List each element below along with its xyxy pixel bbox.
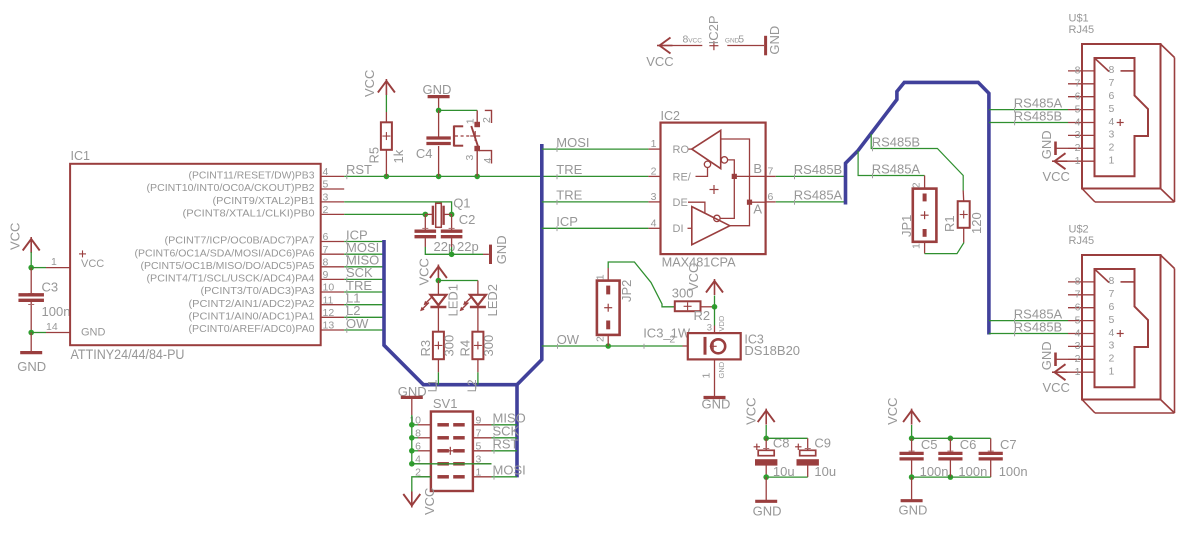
- switch S1 (reset button): [454, 110, 494, 176]
- svg-text:JP2: JP2: [619, 280, 634, 302]
- svg-text:7: 7: [1075, 78, 1081, 90]
- svg-text:5: 5: [1109, 314, 1115, 326]
- wire net OW (bus to JP2/IC3): [542, 325, 691, 349]
- svg-text:RS485B: RS485B: [1014, 319, 1062, 334]
- svg-text:U$2: U$2: [1069, 224, 1089, 236]
- svg-text:300: 300: [441, 335, 456, 357]
- svg-text:120: 120: [969, 212, 984, 234]
- ground GND (C3 / IC1 pin14): [17, 333, 46, 375]
- svg-text:5: 5: [476, 441, 482, 453]
- svg-text:9: 9: [323, 269, 329, 281]
- node junction R2/VDD: [712, 304, 718, 326]
- svg-text:4: 4: [323, 166, 329, 178]
- svg-text:1: 1: [701, 373, 713, 379]
- svg-text:14: 14: [46, 321, 58, 333]
- svg-text:R2: R2: [694, 308, 711, 323]
- jumper JP2: [594, 268, 634, 346]
- capacitor C6 100n: [938, 436, 987, 480]
- svg-text:GND: GND: [702, 397, 731, 412]
- svg-text:2: 2: [651, 165, 657, 177]
- svg-text:1: 1: [476, 467, 482, 479]
- svg-text:2: 2: [1109, 142, 1115, 154]
- wire SV1 pin2 to VCC: [412, 477, 431, 492]
- svg-text:2: 2: [323, 204, 329, 216]
- svg-text:R4: R4: [458, 340, 473, 357]
- svg-text:VCC: VCC: [744, 397, 759, 424]
- node junction C4/switch top: [436, 108, 477, 114]
- svg-text:3: 3: [707, 322, 712, 333]
- svg-text:4: 4: [1075, 327, 1081, 339]
- svg-text:JP1: JP1: [899, 215, 914, 237]
- power VCC (U$1 pin1): [1043, 153, 1070, 184]
- svg-text:RS485A: RS485A: [872, 161, 921, 176]
- svg-text:Q1: Q1: [453, 196, 470, 211]
- svg-text:(PCINT5/OC1B/MISO/DO/ADC5)PA5: (PCINT5/OC1B/MISO/DO/ADC5)PA5: [141, 261, 315, 272]
- svg-text:2: 2: [1109, 353, 1115, 365]
- svg-text:ATTINY24/44/84-PU: ATTINY24/44/84-PU: [71, 347, 185, 362]
- svg-text:(PCINT6/OC1A/SDA/MOSI/ADC6)PA6: (PCINT6/OC1A/SDA/MOSI/ADC6)PA6: [135, 248, 315, 259]
- svg-text:1: 1: [1109, 366, 1115, 378]
- svg-text:GND: GND: [899, 503, 928, 518]
- wire net TRE to IC2 pin3: [542, 188, 649, 205]
- svg-text:GND: GND: [17, 359, 46, 374]
- svg-text:C5: C5: [921, 437, 938, 452]
- resistor R2 300: [672, 286, 715, 324]
- svg-text:300: 300: [481, 335, 496, 357]
- capacitor C7 100n: [979, 437, 1028, 479]
- capacitor C3 100n: [18, 268, 70, 333]
- svg-text:100n: 100n: [999, 464, 1028, 479]
- wire IC1 pin2 (XTAL1) to crystal: [344, 213, 425, 215]
- svg-text:1: 1: [1075, 155, 1081, 167]
- svg-text:VCC: VCC: [8, 223, 23, 250]
- svg-text:C6: C6: [960, 437, 977, 452]
- ground GND (IC3): [702, 397, 731, 412]
- svg-text:5: 5: [1109, 103, 1115, 115]
- svg-text:MOSI: MOSI: [556, 135, 589, 150]
- svg-text:RJ45: RJ45: [1069, 24, 1095, 36]
- resistor R3 300: [418, 332, 456, 393]
- svg-text:GND: GND: [1039, 341, 1054, 370]
- svg-text:8: 8: [1075, 65, 1081, 77]
- bus (main signal bus around LEDs/SV1): [384, 144, 542, 477]
- svg-text:11: 11: [323, 294, 334, 306]
- svg-text:OW: OW: [346, 316, 369, 331]
- svg-text:(PCINT9/XTAL2)PB1: (PCINT9/XTAL2)PB1: [213, 196, 315, 207]
- svg-text:VCC: VCC: [422, 488, 437, 515]
- svg-text:100n: 100n: [42, 304, 71, 319]
- svg-text:C7: C7: [1000, 437, 1017, 452]
- resistor R1 120: [942, 191, 984, 243]
- svg-text:L1: L1: [427, 380, 439, 393]
- svg-text:GND: GND: [717, 361, 726, 378]
- svg-text:VCC: VCC: [885, 397, 900, 424]
- wire net RS485A (bus to U$2 pin5): [989, 306, 1068, 323]
- svg-text:OW: OW: [557, 332, 580, 347]
- svg-text:VCC: VCC: [646, 54, 673, 69]
- svg-text:VCC: VCC: [688, 37, 702, 44]
- resistor R5 1k: [366, 112, 406, 176]
- capacitor C8 10u (polarized): [754, 436, 795, 480]
- ground GND (C4 top): [423, 82, 452, 110]
- svg-text:1: 1: [51, 256, 57, 268]
- svg-text:LED2: LED2: [485, 284, 500, 317]
- svg-text:6: 6: [323, 231, 329, 243]
- power VCC (U$2 pin1): [1043, 364, 1070, 395]
- svg-text:RJ45: RJ45: [1069, 235, 1095, 247]
- power VCC (C3 / IC1 pin1): [8, 223, 40, 268]
- svg-text:VDD: VDD: [717, 315, 726, 331]
- svg-text:1: 1: [911, 243, 923, 249]
- capacitor C2a 22p: [415, 214, 456, 254]
- connector U$1 RJ45: [1068, 13, 1175, 203]
- svg-text:12: 12: [323, 307, 335, 319]
- svg-text:ICP: ICP: [556, 214, 578, 229]
- power VCC (C8/C9): [744, 397, 775, 438]
- svg-text:C3: C3: [42, 280, 59, 295]
- svg-text:(PCINT8/XTAL1/CLKI)PB0: (PCINT8/XTAL1/CLKI)PB0: [183, 209, 315, 220]
- svg-text:DE: DE: [673, 197, 688, 209]
- svg-text:GND: GND: [494, 235, 509, 264]
- svg-text:9: 9: [476, 415, 482, 427]
- svg-text:TRE: TRE: [556, 162, 582, 177]
- svg-text:3: 3: [464, 155, 476, 161]
- svg-text:7: 7: [1109, 288, 1115, 300]
- svg-text:RST: RST: [493, 437, 519, 452]
- svg-text:4: 4: [1075, 116, 1081, 128]
- wire JP2 pin1 to R2: [608, 262, 675, 307]
- svg-text:RO: RO: [673, 144, 690, 156]
- svg-text:7: 7: [768, 165, 774, 177]
- svg-text:B: B: [753, 161, 762, 176]
- svg-text:IC2P: IC2P: [706, 15, 721, 44]
- connector U$2 RJ45: [1068, 224, 1175, 414]
- svg-text:C2: C2: [459, 212, 476, 227]
- svg-text:VCC: VCC: [362, 70, 377, 97]
- svg-text:3: 3: [1109, 129, 1115, 141]
- svg-text:6: 6: [768, 191, 774, 203]
- svg-text:7: 7: [323, 244, 329, 256]
- svg-text:13: 13: [323, 320, 335, 332]
- power VCC (R5): [362, 70, 395, 112]
- svg-text:1k: 1k: [391, 149, 406, 163]
- wire GND rail (C5-C7): [909, 474, 991, 480]
- svg-text:(PCINT2/AIN1/ADC2)PA2: (PCINT2/AIN1/ADC2)PA2: [189, 299, 315, 310]
- svg-text:6: 6: [1109, 301, 1115, 313]
- wire JP1 pin1 to R1 bottom: [925, 243, 964, 254]
- svg-text:1: 1: [1075, 366, 1081, 378]
- svg-text:GND: GND: [423, 82, 452, 97]
- crystal Q1: [423, 196, 471, 228]
- svg-text:2: 2: [594, 336, 606, 342]
- power VCC (IC2P pin8): [646, 34, 702, 70]
- svg-text:8: 8: [1075, 276, 1081, 288]
- svg-text:C9: C9: [814, 436, 831, 451]
- ground GND (SV1): [398, 384, 427, 425]
- svg-text:1: 1: [594, 274, 606, 280]
- svg-text:6: 6: [1075, 302, 1081, 314]
- svg-text:IC2: IC2: [661, 109, 681, 123]
- svg-text:2: 2: [911, 182, 923, 188]
- wire SV1 pin4 to pin3 (crossing): [412, 463, 492, 465]
- svg-text:VCC: VCC: [1043, 169, 1070, 184]
- svg-text:5: 5: [738, 34, 744, 46]
- svg-text:4: 4: [651, 217, 657, 229]
- svg-text:A: A: [753, 202, 762, 217]
- wire VCC node to IC1 pin 1: [28, 265, 46, 271]
- power VCC (C5/C6/C7): [885, 397, 920, 438]
- node junction LED supply: [436, 278, 478, 295]
- wire net RS485A from IC2 pin6 to bus: [776, 188, 846, 205]
- svg-text:8: 8: [1109, 275, 1115, 287]
- svg-text:10u: 10u: [814, 464, 836, 479]
- header SV1 (ISP 2x5): [409, 396, 491, 491]
- svg-text:VCC: VCC: [81, 258, 104, 270]
- ground GND (U$1 pin2): [1039, 130, 1068, 159]
- svg-text:3: 3: [1109, 340, 1115, 352]
- svg-text:(PCINT11/RESET/DW)PB3: (PCINT11/RESET/DW)PB3: [189, 171, 315, 182]
- capacitor C9 10u (polarized): [766, 436, 836, 479]
- svg-text:IC1: IC1: [71, 149, 91, 163]
- svg-text:(PCINT0/AREF/ADC0)PA0: (PCINT0/AREF/ADC0)PA0: [189, 324, 315, 335]
- svg-text:VCC: VCC: [1043, 380, 1070, 395]
- wire net RS485B (bus to U$1 pin4): [989, 108, 1068, 125]
- svg-text:6: 6: [1075, 91, 1081, 103]
- wire VCC rail (C5-C7): [912, 437, 991, 439]
- wire net MOSI to IC2 pin1: [542, 135, 649, 152]
- svg-text:SV1: SV1: [433, 396, 458, 411]
- svg-text:2: 2: [481, 117, 493, 123]
- svg-text:GND: GND: [1039, 130, 1054, 159]
- svg-text:DS18B20: DS18B20: [744, 343, 800, 358]
- ground GND (IC2P pin5): [725, 26, 782, 56]
- ground GND (U$2 pin2): [1039, 341, 1068, 370]
- svg-text:(PCINT7/ICP/OC0B/ADC7)PA7: (PCINT7/ICP/OC0B/ADC7)PA7: [165, 236, 315, 247]
- svg-text:2: 2: [1075, 353, 1081, 365]
- svg-text:7: 7: [1109, 77, 1115, 89]
- svg-text:1: 1: [651, 138, 657, 150]
- IC3 DS18B20 1-wire sensor: [669, 315, 800, 396]
- svg-text:DI: DI: [673, 223, 684, 235]
- power VCC (LED1/LED2): [416, 258, 447, 285]
- svg-text:8: 8: [1109, 64, 1115, 76]
- svg-text:R1: R1: [942, 215, 957, 232]
- wires IC1 PA7..PA0 to bus (nets ICP MOSI MISO SCK TRE L1 L2 OW): [344, 227, 384, 332]
- svg-text:GND: GND: [81, 327, 106, 339]
- wires SV1 MISO/SCK/RST/MOSI to bus: [492, 411, 526, 480]
- svg-text:5: 5: [323, 179, 329, 191]
- capacitor C4: [416, 110, 451, 176]
- svg-text:2: 2: [1075, 142, 1081, 154]
- svg-text:VCC: VCC: [416, 258, 431, 285]
- IC2 MAX481CPA RS-485 transceiver: [648, 109, 775, 269]
- wire net RS485B from IC2 pin7 to bus: [776, 162, 846, 179]
- bus (RS485 A/B to RJ45s): [846, 82, 989, 334]
- capacitor C2b 22p: [441, 212, 479, 254]
- svg-text:L2: L2: [467, 380, 479, 393]
- svg-text:IC3_1W: IC3_1W: [643, 325, 691, 340]
- svg-text:RS485B: RS485B: [872, 134, 920, 149]
- svg-text:(PCINT4/T1/SCL/USCK/ADC4)PA4: (PCINT4/T1/SCL/USCK/ADC4)PA4: [147, 274, 315, 285]
- svg-text:(PCINT10/INT0/OC0A/CKOUT)PB2: (PCINT10/INT0/OC0A/CKOUT)PB2: [147, 183, 315, 194]
- svg-text:(PCINT3/T0/ADC3)PA3: (PCINT3/T0/ADC3)PA3: [201, 286, 315, 297]
- power VCC (SV1, pointing down): [403, 488, 437, 515]
- svg-text:3: 3: [1075, 340, 1081, 352]
- svg-text:TRE: TRE: [556, 188, 582, 203]
- svg-text:7: 7: [476, 428, 482, 440]
- svg-text:1: 1: [1109, 155, 1115, 167]
- svg-text:R5: R5: [366, 147, 381, 164]
- svg-text:RS485B: RS485B: [794, 162, 842, 177]
- wire net RS485B (bus to U$2 pin4): [989, 319, 1068, 336]
- svg-text:2: 2: [669, 334, 675, 346]
- ground GND (C2): [449, 235, 509, 264]
- svg-text:C4: C4: [416, 146, 433, 161]
- svg-text:7: 7: [1075, 289, 1081, 301]
- svg-text:U$1: U$1: [1069, 13, 1089, 25]
- svg-text:6: 6: [1109, 90, 1115, 102]
- IC2P origin: [706, 15, 721, 50]
- svg-text:GND: GND: [767, 26, 782, 55]
- ground GND (C5): [899, 477, 928, 517]
- svg-text:5: 5: [1075, 103, 1081, 115]
- wire SV1 GND column: [409, 422, 418, 467]
- svg-text:LED1: LED1: [446, 284, 461, 317]
- jumper JP1: [899, 182, 937, 253]
- IC1 ATTINY24/44/84-PU microcontroller: [46, 149, 344, 362]
- resistor R4 300: [458, 332, 496, 393]
- capacitor C5 100n: [900, 436, 949, 480]
- wire net RS485B (bus to R1): [871, 134, 963, 191]
- wire net RS485A (bus to JP1 pin2): [858, 151, 925, 189]
- wire net RS485A (bus to U$1 pin5): [989, 95, 1068, 112]
- svg-text:4: 4: [1109, 116, 1115, 128]
- svg-text:RE/: RE/: [673, 171, 692, 183]
- svg-text:3: 3: [1075, 129, 1081, 141]
- svg-text:5: 5: [1075, 314, 1081, 326]
- wire net RST (IC1 pin4 to IC2 pin2 / TRE): [344, 162, 648, 179]
- svg-text:RS485A: RS485A: [794, 188, 843, 203]
- wire net ICP to IC2 pin4: [542, 214, 649, 231]
- wire GND node to IC1 pin 14: [28, 330, 46, 336]
- svg-text:RS485B: RS485B: [1014, 108, 1062, 123]
- svg-text:4: 4: [482, 158, 494, 164]
- svg-text:10: 10: [323, 282, 335, 294]
- wire IC1 pin3 (XTAL2) to crystal: [344, 202, 451, 215]
- svg-text:VCC: VCC: [686, 264, 701, 291]
- svg-text:4: 4: [1109, 327, 1115, 339]
- LED LED1: [420, 284, 460, 332]
- svg-text:(PCINT1/AIN0/ADC1)PA1: (PCINT1/AIN0/ADC1)PA1: [189, 312, 315, 323]
- svg-text:22p: 22p: [457, 239, 479, 254]
- LED LED2: [460, 284, 500, 332]
- svg-text:R3: R3: [418, 340, 433, 357]
- svg-text:MOSI: MOSI: [493, 463, 526, 478]
- svg-text:3: 3: [651, 191, 657, 203]
- svg-text:GND: GND: [753, 504, 782, 519]
- ground GND (C8/C9): [753, 474, 782, 518]
- power VCC (R2/IC3 VDD): [686, 264, 723, 307]
- svg-text:3: 3: [323, 192, 329, 204]
- svg-text:8: 8: [323, 257, 329, 269]
